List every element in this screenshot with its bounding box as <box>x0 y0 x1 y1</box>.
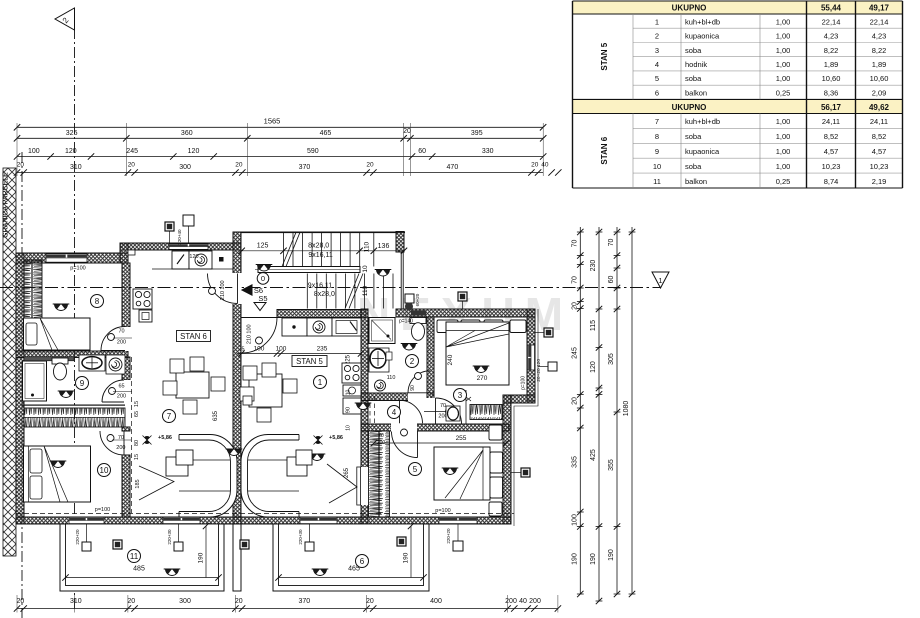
stair break line upper <box>282 232 296 266</box>
svg-text:370: 370 <box>299 164 311 171</box>
svg-text:220+20: 220+20 <box>446 528 451 544</box>
svg-text:kuh+bl+db: kuh+bl+db <box>685 17 720 26</box>
bed room10 <box>24 446 91 502</box>
section flag 2 <box>55 8 75 30</box>
chairs stan6 <box>170 359 184 373</box>
svg-text:1: 1 <box>318 378 323 387</box>
level mark +5,86 stan6 <box>143 436 152 445</box>
door opening stan6 kitchen east <box>232 273 241 304</box>
neighbor crosshatch strip <box>3 168 16 556</box>
svg-text:185: 185 <box>135 479 141 488</box>
svg-text:1,00: 1,00 <box>776 147 791 156</box>
marker window stem stan6 <box>183 215 194 226</box>
room label 3 <box>454 389 467 402</box>
wall bed5 top <box>361 424 509 431</box>
svg-text:20: 20 <box>17 598 25 605</box>
svg-text:soba: soba <box>685 132 702 141</box>
svg-text:100: 100 <box>276 346 287 353</box>
svg-text:+5,86: +5,86 <box>329 435 343 441</box>
nightstand bed5 mid <box>490 452 503 473</box>
svg-text:40: 40 <box>541 162 549 169</box>
stairwell level mark 0 <box>257 273 269 285</box>
wall stair right block <box>396 232 404 253</box>
svg-text:120: 120 <box>590 361 597 373</box>
svg-text:+5,86: +5,86 <box>158 435 172 441</box>
svg-text:120: 120 <box>189 254 198 260</box>
svg-text:305: 305 <box>608 353 615 365</box>
svg-text:120: 120 <box>65 148 77 155</box>
svg-text:335: 335 <box>572 456 579 468</box>
balcony 11 dimension 485 <box>66 577 219 579</box>
svg-text:20: 20 <box>366 162 374 169</box>
svg-text:8,22: 8,22 <box>824 46 839 55</box>
svg-text:8: 8 <box>95 297 100 306</box>
light symbol hall4 <box>355 403 372 410</box>
boundary line granica parcele <box>21 152 23 618</box>
door arc bed3 <box>436 398 462 424</box>
svg-text:20: 20 <box>127 598 135 605</box>
svg-text:STAN 5: STAN 5 <box>296 357 323 366</box>
svg-text:4,23: 4,23 <box>824 32 839 41</box>
svg-text:STAN 6: STAN 6 <box>180 332 207 341</box>
door arc hall4 <box>400 400 423 423</box>
corner notch stan6 <box>128 250 135 255</box>
markers balcony 6 <box>305 542 314 551</box>
closet row bed3 <box>437 320 458 333</box>
svg-text:190: 190 <box>608 549 615 561</box>
svg-text:11: 11 <box>130 552 139 561</box>
svg-text:8: 8 <box>655 132 659 141</box>
svg-text:20: 20 <box>531 162 539 169</box>
small box stan5 dining <box>243 396 252 405</box>
marker lamp below bed5 <box>453 541 463 551</box>
svg-text:49,17: 49,17 <box>869 4 890 13</box>
svg-text:8,52: 8,52 <box>872 132 887 141</box>
label STAN 5 box <box>292 356 327 367</box>
svg-text:100: 100 <box>220 280 226 289</box>
dimension line total 1565 <box>17 126 543 128</box>
door opening room8 <box>121 327 130 351</box>
pass-through opening stan5 <box>360 467 368 505</box>
svg-text:20: 20 <box>235 162 243 169</box>
svg-text:70: 70 <box>572 276 579 284</box>
svg-text:60: 60 <box>608 276 615 284</box>
svg-text:6: 6 <box>360 557 365 566</box>
svg-text:p=100: p=100 <box>521 376 527 390</box>
swing V stan6 <box>139 466 174 500</box>
section flag 1 triangle <box>652 272 669 288</box>
washbasin bath2 <box>369 348 389 372</box>
stairwell light symbol right <box>375 270 392 277</box>
svg-text:S5: S5 <box>258 294 267 303</box>
horizontal centerline <box>0 287 660 289</box>
balcony 6 light <box>312 569 329 576</box>
room label 1 <box>314 376 327 389</box>
right dimension line 2 <box>598 227 600 601</box>
svg-text:200: 200 <box>117 394 126 400</box>
svg-text:20: 20 <box>128 162 136 169</box>
svg-text:2: 2 <box>410 357 415 366</box>
svg-text:p=100: p=100 <box>435 508 450 514</box>
shelf bar room9 <box>24 357 74 361</box>
svg-text:190: 190 <box>572 553 579 565</box>
svg-text:70: 70 <box>118 329 124 335</box>
marker Z1 above stan6 kitchen <box>165 222 174 231</box>
svg-text:20: 20 <box>17 162 25 169</box>
svg-text:325: 325 <box>66 130 78 137</box>
svg-text:1,89: 1,89 <box>824 60 839 69</box>
oven stan5 <box>343 385 361 396</box>
svg-text:70: 70 <box>440 403 446 409</box>
stair risers lower flight <box>307 274 393 309</box>
door opening room9 <box>121 380 130 402</box>
svg-text:3: 3 <box>655 46 659 55</box>
sofa stan5 <box>241 435 299 518</box>
svg-text:110: 110 <box>364 241 371 252</box>
room label 7 <box>163 410 176 423</box>
dashed line stan6 living east <box>131 357 133 513</box>
svg-text:4,57: 4,57 <box>872 147 887 156</box>
svg-text:300: 300 <box>179 598 191 605</box>
dimension 5 100 100 235 stan5 <box>237 353 361 355</box>
svg-text:470: 470 <box>447 164 459 171</box>
door opening stan5 entry <box>242 310 278 318</box>
svg-text:soba: soba <box>685 74 702 83</box>
svg-text:kuh+bl+db: kuh+bl+db <box>685 117 720 126</box>
svg-text:1,00: 1,00 <box>776 32 791 41</box>
balcony door sill bed5 <box>439 517 477 523</box>
light symbol room10 <box>50 461 67 468</box>
svg-text:270: 270 <box>477 375 488 382</box>
shower bath2 <box>369 318 395 344</box>
wall room9 bottom line <box>22 405 125 406</box>
svg-text:220+20: 220+20 <box>75 529 80 545</box>
room label 4 <box>388 406 401 419</box>
svg-text:310: 310 <box>70 164 82 171</box>
balcony divider wall <box>233 524 241 591</box>
svg-text:hodnik: hodnik <box>685 60 707 69</box>
dimension line row2 325 360 465 20 395 <box>17 137 543 139</box>
svg-text:soba: soba <box>685 46 702 55</box>
wall stan6 kitchen top exterior <box>120 243 241 250</box>
svg-text:125: 125 <box>257 243 269 250</box>
wall room8 living divider <box>122 263 130 327</box>
svg-text:5: 5 <box>655 74 659 83</box>
svg-text:60+20: 60+20 <box>415 293 420 306</box>
svg-text:8,36: 8,36 <box>824 88 839 97</box>
marker Z1 bottom left <box>240 540 249 549</box>
svg-text:190: 190 <box>403 552 410 563</box>
svg-text:3: 3 <box>458 391 463 400</box>
dining table stan5 <box>249 374 282 407</box>
svg-text:400: 400 <box>430 598 442 605</box>
svg-text:1080: 1080 <box>623 401 630 417</box>
dimension guide verticals <box>17 123 543 176</box>
svg-text:2: 2 <box>655 32 659 41</box>
svg-text:100: 100 <box>254 346 265 353</box>
svg-text:2,19: 2,19 <box>872 177 887 186</box>
door opening bath2 <box>408 392 430 401</box>
svg-text:5: 5 <box>241 347 244 353</box>
light symbol bed3 <box>473 366 490 373</box>
svg-text:200: 200 <box>116 445 125 451</box>
svg-text:265: 265 <box>344 467 350 478</box>
balcony 11 dimension 190 <box>205 526 207 578</box>
wall room9 living divider <box>122 357 130 380</box>
table grid <box>633 28 903 173</box>
door arc room9 <box>102 380 124 402</box>
svg-text:355: 355 <box>608 459 615 471</box>
room label 11 <box>128 550 141 563</box>
svg-text:220+40: 220+40 <box>177 229 182 245</box>
nightstand bed5 bottom <box>489 502 502 516</box>
svg-text:20: 20 <box>235 598 243 605</box>
kitchen counter stan5 <box>282 318 307 336</box>
balcony 6 dimension 465 <box>279 577 424 579</box>
svg-text:370: 370 <box>298 598 310 605</box>
svg-text:120: 120 <box>188 148 200 155</box>
svg-text:24,11: 24,11 <box>870 117 888 126</box>
marker stem bath2 window <box>405 294 414 303</box>
svg-text:9: 9 <box>655 147 659 156</box>
svg-text:soba: soba <box>685 162 702 171</box>
balcony door sill stan5 west <box>300 517 337 523</box>
svg-text:255: 255 <box>456 435 467 442</box>
washbasin hall4 <box>446 406 460 421</box>
hob spiral stan6 <box>195 254 207 266</box>
marker Z1 right of bed5 <box>521 468 530 477</box>
room label 5 <box>409 463 422 476</box>
door arc bath2 <box>408 371 430 393</box>
svg-text:p=100: p=100 <box>70 266 85 272</box>
svg-text:120: 120 <box>536 359 542 367</box>
table yellow header band STAN 6 UKUPNO <box>573 99 903 113</box>
svg-text:70: 70 <box>608 239 615 247</box>
svg-text:UKUPNO: UKUPNO <box>672 103 707 112</box>
svg-text:7: 7 <box>655 117 659 126</box>
dining table stan6 <box>176 372 209 398</box>
wall room8 bottom <box>16 351 128 358</box>
svg-text:20: 20 <box>572 397 579 405</box>
door opening bed3 <box>426 398 434 424</box>
svg-text:200: 200 <box>505 598 517 605</box>
room label 9 <box>76 377 89 390</box>
svg-text:24,11: 24,11 <box>822 117 840 126</box>
wall right exterior B <box>503 395 511 524</box>
svg-text:635: 635 <box>213 410 219 421</box>
svg-text:0: 0 <box>261 274 265 283</box>
fridge stan5 <box>343 398 361 414</box>
svg-text:9x16,11: 9x16,11 <box>308 252 332 259</box>
svg-text:6: 6 <box>655 88 659 97</box>
svg-text:UKUPNO: UKUPNO <box>672 4 707 13</box>
svg-text:245: 245 <box>572 347 579 359</box>
balcony 6 dimension 190 <box>410 526 412 578</box>
bed room8 <box>24 318 91 350</box>
bottom dimension line 20 310 20 300 20 370 20 400 cluster <box>17 608 558 610</box>
balcony 11 outline <box>60 524 224 591</box>
svg-text:7: 7 <box>167 412 172 421</box>
svg-text:55,44: 55,44 <box>821 4 842 13</box>
svg-text:136: 136 <box>378 243 390 250</box>
shower room9 <box>23 361 47 401</box>
svg-text:balkon: balkon <box>685 177 707 186</box>
markers balcony 11 <box>82 542 91 551</box>
facade offset line right <box>514 309 538 526</box>
bottom dimension guide verticals <box>17 595 558 613</box>
svg-text:110: 110 <box>387 375 396 381</box>
svg-text:8x28,0: 8x28,0 <box>314 291 335 298</box>
closet band room10 <box>24 408 125 427</box>
door arc stan5 entry <box>242 318 278 354</box>
marker Z1 above bed3 <box>458 292 467 301</box>
stove stan5 <box>342 363 361 383</box>
swing V stan5 <box>327 464 357 503</box>
svg-text:22,14: 22,14 <box>822 17 841 26</box>
svg-text:1: 1 <box>658 276 662 285</box>
wall stan5 stan6 divider <box>233 232 241 524</box>
dashed opening hall4 <box>369 396 371 427</box>
hob spiral stan5 <box>313 321 325 333</box>
svg-text:0,25: 0,25 <box>776 88 791 97</box>
svg-text:330: 330 <box>482 148 494 155</box>
svg-text:100: 100 <box>28 148 40 155</box>
right dimension line 1 <box>579 227 581 594</box>
svg-text:220+30: 220+30 <box>167 529 172 545</box>
stair right double line <box>400 252 402 309</box>
svg-text:485: 485 <box>133 566 145 573</box>
svg-text:240: 240 <box>447 354 454 365</box>
right dimension line 4 <box>631 227 633 594</box>
wall left exterior <box>16 253 24 524</box>
svg-text:220+30: 220+30 <box>298 529 303 545</box>
window sill above wc room2 <box>411 310 426 315</box>
balcony 6 outline <box>273 524 429 591</box>
window stan6 kitchen north <box>169 244 208 250</box>
table yellow header band STAN 5 UKUPNO <box>573 1 903 14</box>
svg-text:1,00: 1,00 <box>776 74 791 83</box>
svg-text:kupaonica: kupaonica <box>685 147 720 156</box>
section line 2-2 vertical <box>74 28 76 612</box>
svg-text:20: 20 <box>366 598 374 605</box>
svg-text:10,23: 10,23 <box>870 162 889 171</box>
svg-text:0,25: 0,25 <box>776 177 791 186</box>
svg-text:190: 190 <box>590 553 597 565</box>
svg-text:1,00: 1,00 <box>776 60 791 69</box>
wall stan5 top interior <box>277 310 366 318</box>
wall bottom exterior <box>16 517 511 524</box>
stairwell top wall line <box>241 232 405 234</box>
svg-text:1: 1 <box>655 17 659 26</box>
svg-text:395: 395 <box>471 130 483 137</box>
svg-text:65: 65 <box>134 411 140 417</box>
svg-text:465: 465 <box>320 130 332 137</box>
svg-text:p=100: p=100 <box>95 507 110 513</box>
svg-text:1,00: 1,00 <box>776 46 791 55</box>
light symbol bed5 <box>442 468 459 475</box>
wall corner jog stan6 <box>120 243 128 263</box>
section marker S6 <box>241 284 253 296</box>
svg-text:115: 115 <box>590 320 597 331</box>
svg-text:300: 300 <box>179 164 191 171</box>
svg-text:11: 11 <box>653 177 661 186</box>
svg-text:49,62: 49,62 <box>869 103 890 112</box>
svg-text:20+20: 20+20 <box>536 368 542 382</box>
balcony 11 light <box>164 569 181 576</box>
svg-text:65: 65 <box>118 384 124 390</box>
stair dimension line <box>242 250 404 252</box>
wall bath2 bed3 divider <box>427 317 434 424</box>
svg-text:10: 10 <box>362 265 369 273</box>
wall right exterior A <box>527 309 535 401</box>
svg-text:8,22: 8,22 <box>872 46 887 55</box>
svg-text:1,89: 1,89 <box>872 60 887 69</box>
svg-text:STAN 5: STAN 5 <box>600 42 609 70</box>
marker Z1 right of bed3 <box>544 328 553 337</box>
svg-text:10,60: 10,60 <box>870 74 889 83</box>
svg-text:10: 10 <box>653 162 661 171</box>
svg-text:9: 9 <box>80 379 85 388</box>
svg-text:8,74: 8,74 <box>824 177 839 186</box>
svg-text:230: 230 <box>590 260 597 272</box>
svg-text:p=140: p=140 <box>399 319 413 325</box>
door arc stan6 kitchen <box>208 274 238 304</box>
coffee table stan5 <box>287 457 307 476</box>
sink cabinet stan6 lower <box>139 310 152 322</box>
svg-text:kupaonica: kupaonica <box>685 32 720 41</box>
wall room10 living divider <box>122 427 130 431</box>
door opening bed5 <box>391 423 417 431</box>
svg-text:8x28,0: 8x28,0 <box>308 242 329 249</box>
svg-text:10,60: 10,60 <box>822 74 841 83</box>
stair risers upper flight <box>284 232 360 266</box>
svg-text:70: 70 <box>572 240 579 248</box>
wall bath2 bottom <box>361 393 434 401</box>
svg-text:8,52: 8,52 <box>824 132 839 141</box>
svg-text:1,00: 1,00 <box>776 117 791 126</box>
wall room8 top exterior <box>16 253 128 263</box>
wall rooms 2 3 top exterior <box>396 309 535 317</box>
svg-text:4,23: 4,23 <box>872 32 887 41</box>
svg-text:200: 200 <box>529 598 541 605</box>
room label 2 <box>406 355 419 368</box>
window room8 north <box>46 254 87 262</box>
stair handrail <box>258 267 360 273</box>
boiler spiral bath2 <box>375 380 386 391</box>
svg-text:4,57: 4,57 <box>824 147 839 156</box>
light symbol stan6 wall <box>226 449 243 456</box>
svg-text:310: 310 <box>70 598 82 605</box>
svg-text:56,17: 56,17 <box>821 103 842 112</box>
bed bed5 <box>434 447 490 500</box>
svg-text:80: 80 <box>134 440 140 446</box>
door arc room10 <box>100 431 124 455</box>
room label 6 <box>356 555 369 568</box>
toilet bath2 <box>410 318 426 324</box>
svg-text:210: 210 <box>247 335 253 344</box>
wardrobe room8 <box>24 260 42 318</box>
kitchen counter stan6 <box>172 251 189 269</box>
light symbol stan5 living <box>309 454 326 461</box>
svg-text:4: 4 <box>655 60 659 69</box>
sofa stan6 <box>179 435 237 518</box>
svg-text:22,14: 22,14 <box>870 17 889 26</box>
svg-text:1,00: 1,00 <box>776 132 791 141</box>
svg-text:90: 90 <box>346 407 352 413</box>
toilet room9 <box>52 358 68 364</box>
svg-text:100: 100 <box>572 514 579 526</box>
svg-text:5: 5 <box>413 465 418 474</box>
